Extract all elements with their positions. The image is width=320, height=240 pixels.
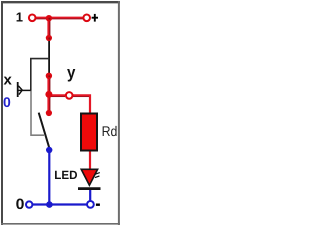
svg-text:LED: LED xyxy=(54,168,78,182)
svg-text:Rd: Rd xyxy=(102,123,118,139)
svg-text:0: 0 xyxy=(3,94,11,110)
svg-text:x: x xyxy=(4,72,13,89)
svg-text:y: y xyxy=(67,63,76,82)
svg-text:0: 0 xyxy=(16,196,25,213)
svg-text:1: 1 xyxy=(16,10,23,25)
